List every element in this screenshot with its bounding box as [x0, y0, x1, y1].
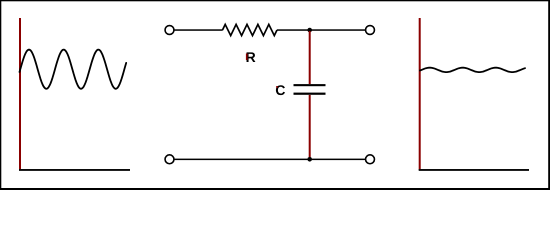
output graph vertical axis [419, 18, 421, 170]
wire capacitor down to bottom node [309, 95, 311, 159]
output graph horizontal axis [419, 169, 529, 171]
input graph horizontal axis [19, 169, 130, 171]
terminal bottom-right [366, 155, 375, 164]
input graph vertical axis [19, 18, 21, 170]
wire node down to capacitor [309, 31, 311, 84]
wire top-left to resistor [174, 29, 222, 31]
wire node to top-right terminal [310, 29, 365, 31]
node junction bottom [307, 157, 312, 162]
terminal top-right [366, 26, 375, 35]
label R [247, 52, 256, 62]
resistor R [223, 24, 278, 35]
label C [276, 85, 285, 95]
bottom wire right segment [310, 159, 365, 161]
terminal bottom-left [165, 155, 174, 164]
node junction top [307, 28, 312, 33]
wire resistor to node [277, 29, 310, 31]
output ripple waveform [420, 68, 525, 72]
capacitor C bottom plate [294, 93, 326, 95]
bottom wire left segment [174, 159, 307, 161]
capacitor C top plate [294, 84, 326, 86]
terminal top-left [165, 26, 174, 35]
input sine waveform [20, 50, 127, 89]
